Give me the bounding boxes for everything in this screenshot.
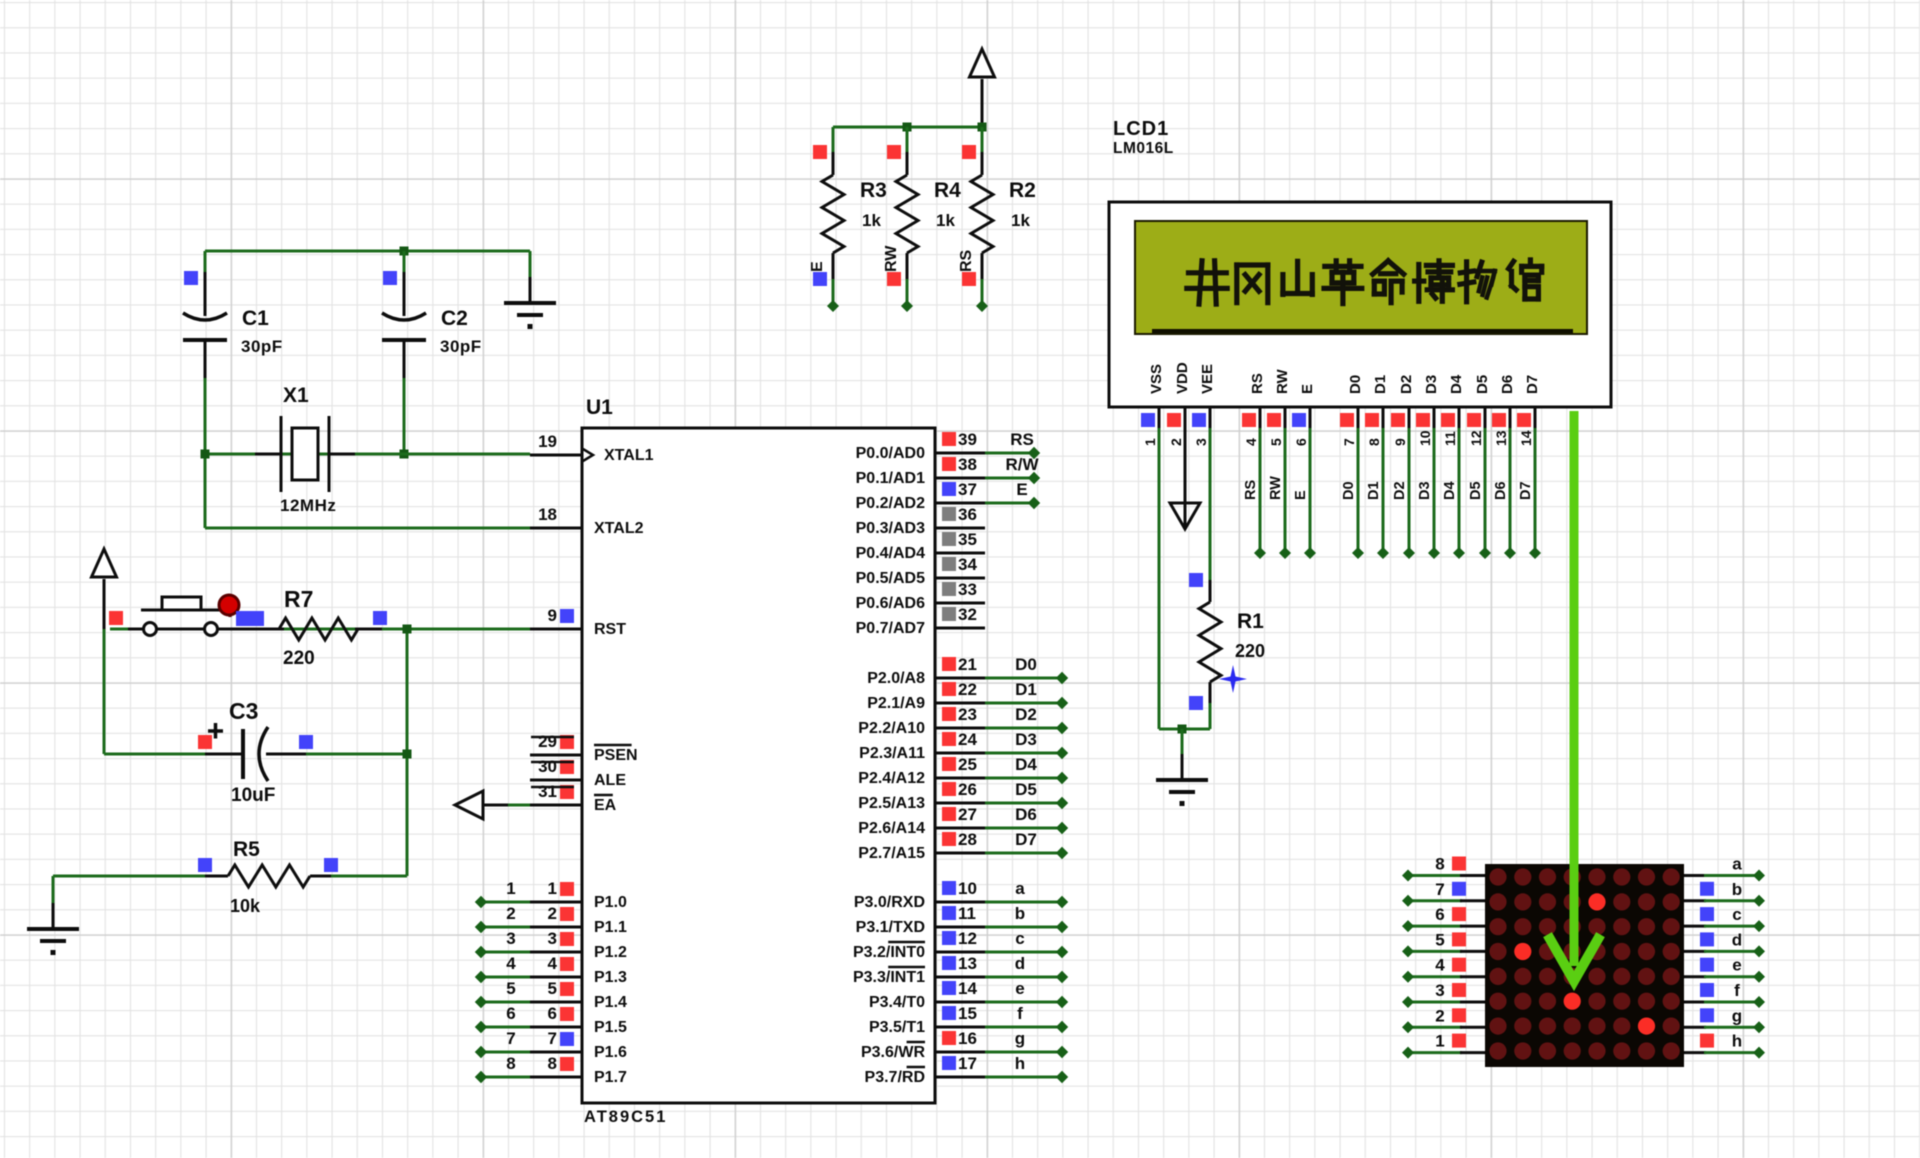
svg-text:6: 6 — [548, 1004, 557, 1023]
wire net D3 lcd — [1433, 428, 1436, 553]
wire net 1 — [481, 901, 530, 904]
svg-text:RW: RW — [1268, 476, 1284, 500]
svg-text:7: 7 — [506, 1029, 515, 1048]
wire net D3 — [985, 752, 1062, 755]
svg-text:14: 14 — [958, 979, 977, 998]
resistor R2 — [981, 127, 984, 152]
pin P3.2 12 — [935, 951, 985, 954]
wire net 6 — [481, 1026, 530, 1029]
svg-text:23: 23 — [958, 705, 977, 724]
wire matrix row 6 — [1408, 925, 1462, 928]
svg-text:3: 3 — [548, 929, 557, 948]
svg-text:24: 24 — [958, 730, 977, 749]
resistor R3 — [832, 127, 835, 152]
node R5 left — [198, 858, 212, 872]
svg-text:10uF: 10uF — [231, 785, 275, 806]
svg-text:P1.6: P1.6 — [594, 1044, 627, 1061]
node R2 top — [962, 145, 976, 159]
svg-text:30pF: 30pF — [241, 337, 283, 356]
svg-text:P0.5/AD5: P0.5/AD5 — [856, 570, 925, 587]
svg-text:C1: C1 — [242, 307, 269, 330]
pin P2.5 26 — [935, 802, 985, 805]
node R4 bottom — [887, 272, 901, 286]
wire R2 bottom net RS — [981, 279, 984, 306]
pin P3.6 16 — [935, 1051, 985, 1054]
pin P1.0 1 — [530, 901, 582, 904]
svg-text:P1.0: P1.0 — [594, 894, 627, 911]
wire net D5 lcd — [1484, 428, 1487, 553]
svg-text:11: 11 — [958, 904, 976, 923]
marker origin — [1219, 665, 1247, 693]
pin P0.5 34 — [935, 577, 985, 580]
svg-text:RS: RS — [1249, 373, 1266, 394]
pin P3.3 13 — [935, 976, 985, 979]
wire net D4 — [985, 777, 1062, 780]
svg-text:RST: RST — [594, 621, 626, 638]
svg-text:4: 4 — [548, 954, 558, 973]
svg-text:13: 13 — [958, 954, 977, 973]
node R2 bottom — [962, 272, 976, 286]
svg-text:8: 8 — [548, 1054, 557, 1073]
svg-text:c: c — [1015, 929, 1024, 948]
svg-text:4: 4 — [1435, 956, 1445, 975]
wire pullup rail — [833, 126, 982, 129]
wire left vertical to C3 — [103, 629, 106, 754]
svg-text:31: 31 — [538, 782, 557, 801]
wire R5 row left — [53, 875, 207, 878]
power terminal VCC reset — [92, 549, 117, 577]
svg-text:18: 18 — [538, 505, 557, 524]
svg-text:30pF: 30pF — [440, 337, 482, 356]
svg-text:D7: D7 — [1524, 375, 1541, 394]
svg-text:P2.6/A14: P2.6/A14 — [858, 820, 925, 837]
svg-text:P2.7/A15: P2.7/A15 — [858, 845, 925, 862]
wire matrix row 7 — [1408, 899, 1462, 902]
junction at left vertical — [201, 450, 210, 459]
svg-text:E: E — [1293, 490, 1309, 500]
wire C3 row right — [306, 753, 407, 756]
svg-text:P3.7/RD: P3.7/RD — [865, 1069, 925, 1086]
svg-text:LM016L: LM016L — [1113, 140, 1174, 157]
pin EA 31 — [530, 804, 582, 807]
svg-text:P1.1: P1.1 — [594, 919, 627, 936]
svg-text:P3.2/INT0: P3.2/INT0 — [853, 944, 925, 961]
svg-text:D5: D5 — [1474, 375, 1491, 394]
wire matrix col a — [1684, 874, 1706, 877]
svg-text:7: 7 — [1341, 438, 1357, 446]
svg-text:e: e — [1732, 956, 1741, 975]
wire matrix row 8 — [1408, 874, 1462, 877]
svg-text:6: 6 — [506, 1004, 515, 1023]
svg-text:D1: D1 — [1366, 481, 1382, 500]
svg-text:9: 9 — [1392, 438, 1408, 446]
svg-text:AT89C51: AT89C51 — [584, 1108, 667, 1126]
junction at XTAL1 net — [400, 450, 409, 459]
svg-text:D6: D6 — [1499, 375, 1516, 394]
pin P0.7 32 — [935, 627, 985, 630]
svg-text:h: h — [1732, 1032, 1742, 1051]
svg-text:1: 1 — [1142, 438, 1158, 446]
svg-text:7: 7 — [1435, 880, 1444, 899]
wire net 2 — [481, 926, 530, 929]
wire to ground — [1181, 729, 1184, 753]
svg-text:EA: EA — [594, 797, 617, 814]
svg-text:P2.1/A9: P2.1/A9 — [867, 695, 925, 712]
svg-text:12: 12 — [1468, 430, 1484, 446]
svg-text:P1.7: P1.7 — [594, 1069, 627, 1086]
svg-text:RW: RW — [1274, 368, 1291, 394]
capacitor C1 — [204, 251, 207, 272]
svg-text:15: 15 — [958, 1004, 977, 1023]
wire matrix row 1 — [1408, 1051, 1462, 1054]
svg-text:D1: D1 — [1015, 680, 1037, 699]
svg-text:D4: D4 — [1442, 481, 1458, 500]
svg-text:1: 1 — [548, 879, 557, 898]
svg-text:g: g — [1015, 1029, 1025, 1048]
svg-text:D6: D6 — [1015, 805, 1037, 824]
svg-text:1k: 1k — [936, 211, 955, 230]
junction rail R2 — [978, 123, 987, 132]
node C1 top — [184, 271, 198, 285]
power terminal EA — [455, 791, 483, 819]
ground R1 — [1181, 751, 1184, 756]
resistor R1 — [1189, 573, 1203, 587]
wire matrix col g — [1684, 1026, 1706, 1029]
svg-text:220: 220 — [283, 648, 315, 669]
svg-text:33: 33 — [958, 580, 977, 599]
wire VSS down — [1158, 428, 1161, 729]
svg-text:3: 3 — [506, 929, 515, 948]
wire net e — [985, 1001, 1062, 1004]
svg-text:c: c — [1732, 905, 1741, 924]
wire net D5 — [985, 802, 1062, 805]
svg-text:5: 5 — [548, 979, 557, 998]
wire C3 row left — [104, 753, 207, 756]
svg-text:D4: D4 — [1448, 374, 1465, 394]
svg-text:h: h — [1015, 1054, 1025, 1073]
svg-text:LCD1: LCD1 — [1113, 118, 1169, 140]
wire net 8 — [481, 1076, 530, 1079]
wire C1 to XTAL1 left vertical — [204, 378, 207, 528]
svg-text:P3.4/T0: P3.4/T0 — [869, 994, 925, 1011]
svg-text:C3: C3 — [229, 698, 258, 724]
wire net E lcd — [1309, 428, 1312, 553]
svg-text:P2.4/A12: P2.4/A12 — [858, 770, 925, 787]
svg-text:VEE: VEE — [1199, 364, 1216, 394]
pin P2.4 25 — [935, 777, 985, 780]
wire matrix col c — [1684, 925, 1706, 928]
svg-text:RW: RW — [883, 245, 900, 272]
wire matrix row 4 — [1408, 975, 1462, 978]
pin P1.1 2 — [530, 926, 582, 929]
ground reset — [52, 876, 55, 905]
pin P0.2 37 — [935, 502, 985, 505]
pin P3.4 14 — [935, 1001, 985, 1004]
svg-text:X1: X1 — [283, 384, 309, 407]
wire net b — [985, 926, 1062, 929]
wire net D1 lcd — [1382, 428, 1385, 553]
node R3 top — [813, 145, 827, 159]
svg-text:P3.3/INT1: P3.3/INT1 — [853, 969, 925, 986]
svg-text:220: 220 — [1235, 641, 1265, 661]
svg-text:ALE: ALE — [594, 772, 626, 789]
svg-text:5: 5 — [1435, 930, 1444, 949]
svg-text:8: 8 — [506, 1054, 515, 1073]
annotation green arrow — [1570, 411, 1579, 966]
wire net D0 — [985, 677, 1062, 680]
wire matrix col e — [1684, 975, 1706, 978]
resistor R5 — [205, 875, 228, 878]
junction C3-right vertical — [403, 750, 412, 759]
wire net D6 lcd — [1509, 428, 1512, 553]
svg-text:R/W: R/W — [1005, 455, 1039, 474]
svg-text:P0.4/AD4: P0.4/AD4 — [856, 545, 925, 562]
wire XTAL1 row — [205, 453, 530, 456]
svg-text:D2: D2 — [1015, 705, 1037, 724]
svg-text:28: 28 — [958, 830, 977, 849]
wire net D2 lcd — [1408, 428, 1411, 553]
pin P2.0 21 — [935, 677, 985, 680]
pin P3.5 15 — [935, 1026, 985, 1029]
junction node at C2 top — [400, 247, 409, 256]
pin P1.6 7 — [530, 1051, 582, 1054]
svg-text:8: 8 — [1435, 855, 1444, 874]
svg-text:6: 6 — [1293, 438, 1309, 446]
pin XTAL2 18 — [530, 527, 582, 530]
svg-text:22: 22 — [958, 680, 977, 699]
node C3 left — [198, 735, 212, 749]
lcd LCD1 body — [1109, 202, 1611, 407]
svg-text:37: 37 — [958, 480, 977, 499]
svg-text:13: 13 — [1493, 430, 1509, 446]
svg-text:E: E — [809, 261, 826, 272]
power terminal VCC pullups — [970, 49, 995, 77]
pin P1.4 5 — [530, 1001, 582, 1004]
crystal X1 — [255, 453, 281, 456]
wire R4 bottom net RW — [906, 279, 909, 306]
svg-text:g: g — [1732, 1006, 1742, 1025]
wire net 5 — [481, 1001, 530, 1004]
svg-text:P3.5/T1: P3.5/T1 — [869, 1019, 925, 1036]
svg-text:RS: RS — [1243, 480, 1259, 500]
node R3 bottom — [813, 272, 827, 286]
wire top rail C1-C2-ground — [205, 250, 530, 253]
svg-text:D0: D0 — [1347, 375, 1364, 394]
svg-text:U1: U1 — [586, 396, 613, 419]
svg-text:36: 36 — [958, 505, 977, 524]
pin number overbars — [531, 736, 574, 739]
junction R1 ground — [1178, 725, 1187, 734]
wire net D1 — [985, 702, 1062, 705]
svg-text:16: 16 — [958, 1029, 977, 1048]
svg-text:P3.1/TXD: P3.1/TXD — [856, 919, 925, 936]
junction R7-RST-C3 — [403, 625, 412, 634]
wire net d — [985, 976, 1062, 979]
wire R5 row right — [331, 875, 407, 878]
wire matrix row 5 — [1408, 950, 1462, 953]
svg-text:P0.2/AD2: P0.2/AD2 — [856, 495, 925, 512]
node R7 right — [373, 611, 387, 625]
wire matrix row 2 — [1408, 1026, 1462, 1029]
pin P3.7 17 — [935, 1076, 985, 1079]
pin P0.3 36 — [935, 527, 985, 530]
wire net g — [985, 1051, 1062, 1054]
svg-text:PSEN: PSEN — [594, 747, 638, 764]
svg-text:2: 2 — [548, 904, 557, 923]
ground terminal VDD — [1184, 407, 1187, 529]
svg-text:3: 3 — [1435, 981, 1444, 1000]
pin PSEN 29 — [530, 754, 582, 757]
wire net RS lcd — [1259, 428, 1262, 553]
pin ALE 30 — [530, 779, 582, 782]
svg-text:P3.6/WR: P3.6/WR — [861, 1044, 925, 1061]
node R4 top — [887, 145, 901, 159]
svg-text:10: 10 — [1417, 430, 1433, 446]
svg-text:D0: D0 — [1015, 655, 1037, 674]
svg-text:P1.3: P1.3 — [594, 969, 627, 986]
svg-text:12: 12 — [958, 929, 977, 948]
svg-text:D7: D7 — [1015, 830, 1037, 849]
svg-text:VDD: VDD — [1174, 362, 1191, 394]
pin P2.2 23 — [935, 727, 985, 730]
ground top right — [529, 251, 532, 279]
svg-text:R4: R4 — [934, 179, 961, 202]
svg-text:19: 19 — [538, 432, 557, 451]
svg-text:25: 25 — [958, 755, 977, 774]
wire matrix col d — [1684, 950, 1706, 953]
svg-text:8: 8 — [1366, 438, 1382, 446]
wire net D7 lcd — [1534, 428, 1537, 553]
pin P3.0 10 — [935, 901, 985, 904]
wire button row — [110, 628, 530, 631]
wire net R/W — [985, 477, 1034, 480]
node C2 top — [383, 271, 397, 285]
svg-text:E: E — [1299, 384, 1316, 394]
svg-text:D3: D3 — [1015, 730, 1037, 749]
pin P0.1 38 — [935, 477, 985, 480]
svg-text:10: 10 — [958, 879, 977, 898]
svg-text:a: a — [1732, 855, 1742, 874]
svg-text:27: 27 — [958, 805, 977, 824]
svg-text:34: 34 — [958, 555, 977, 574]
svg-text:5: 5 — [1268, 438, 1284, 446]
svg-text:R2: R2 — [1009, 179, 1036, 202]
svg-text:1: 1 — [506, 879, 515, 898]
svg-text:P1.4: P1.4 — [594, 994, 627, 1011]
node C3 right — [299, 735, 313, 749]
resistor R4 — [906, 127, 909, 152]
svg-text:35: 35 — [958, 530, 977, 549]
svg-text:b: b — [1015, 904, 1025, 923]
svg-text:D1: D1 — [1372, 375, 1389, 394]
svg-text:a: a — [1015, 879, 1025, 898]
svg-text:D2: D2 — [1398, 375, 1415, 394]
svg-text:14: 14 — [1518, 430, 1534, 446]
pin P2.1 22 — [935, 702, 985, 705]
wire net D2 — [985, 727, 1062, 730]
svg-text:D5: D5 — [1015, 780, 1037, 799]
svg-text:26: 26 — [958, 780, 977, 799]
pin P2.6 27 — [935, 827, 985, 830]
svg-text:VSS: VSS — [1148, 364, 1165, 394]
svg-text:P0.0/AD0: P0.0/AD0 — [856, 445, 925, 462]
node R5 right — [324, 858, 338, 872]
wire net 4 — [481, 976, 530, 979]
pin P1.5 6 — [530, 1026, 582, 1029]
svg-text:e: e — [1015, 979, 1024, 998]
wire matrix col f — [1684, 1001, 1706, 1004]
pin RST 9 — [530, 628, 582, 631]
svg-text:R1: R1 — [1237, 610, 1264, 633]
svg-text:D2: D2 — [1392, 481, 1408, 500]
svg-text:3: 3 — [1193, 438, 1209, 446]
svg-text:D7: D7 — [1518, 481, 1534, 500]
svg-text:7: 7 — [548, 1029, 557, 1048]
node button-R7 — [236, 611, 264, 626]
pin XTAL1 19 — [530, 454, 582, 457]
wire R1 bottom — [1209, 703, 1212, 729]
svg-text:f: f — [1734, 981, 1740, 1000]
svg-text:d: d — [1732, 930, 1742, 949]
wire VEE down to R1 — [1209, 428, 1212, 580]
svg-text:D3: D3 — [1423, 375, 1440, 394]
svg-text:2: 2 — [1435, 1006, 1444, 1025]
svg-text:29: 29 — [538, 732, 557, 751]
wire net D4 lcd — [1458, 428, 1461, 553]
wire net D6 — [985, 827, 1062, 830]
svg-text:P2.2/A10: P2.2/A10 — [858, 720, 925, 737]
svg-text:39: 39 — [958, 430, 977, 449]
svg-text:P1.2: P1.2 — [594, 944, 627, 961]
svg-text:R5: R5 — [233, 838, 260, 861]
wire net c — [985, 951, 1062, 954]
junction rail R4 — [903, 123, 912, 132]
svg-text:P0.7/AD7: P0.7/AD7 — [856, 620, 925, 637]
capacitor C3 polarized — [205, 753, 243, 756]
svg-text:9: 9 — [548, 606, 557, 625]
svg-text:2: 2 — [506, 904, 515, 923]
svg-text:E: E — [1016, 480, 1027, 499]
lcd screen — [1135, 221, 1587, 334]
wire R7 to RST and down — [406, 629, 409, 876]
svg-text:2: 2 — [1168, 438, 1184, 446]
pin P0.4 35 — [935, 552, 985, 555]
wire net a — [985, 901, 1062, 904]
svg-text:C2: C2 — [441, 307, 468, 330]
svg-text:P0.1/AD1: P0.1/AD1 — [856, 470, 925, 487]
svg-text:1k: 1k — [862, 211, 881, 230]
pin P1.3 4 — [530, 976, 582, 979]
svg-text:P2.3/A11: P2.3/A11 — [859, 745, 925, 762]
svg-text:4: 4 — [506, 954, 516, 973]
svg-text:1: 1 — [1435, 1032, 1444, 1051]
svg-text:P3.0/RXD: P3.0/RXD — [854, 894, 925, 911]
dot matrix display body — [1485, 864, 1684, 1067]
wire matrix col b — [1684, 899, 1706, 902]
svg-text:D0: D0 — [1341, 481, 1357, 500]
svg-text:D3: D3 — [1417, 481, 1433, 500]
pin P0.0 39 — [935, 452, 985, 455]
svg-text:P1.5: P1.5 — [594, 1019, 627, 1036]
lcd text display — [1189, 270, 1227, 275]
wire net f — [985, 1026, 1062, 1029]
svg-text:4: 4 — [1243, 438, 1259, 446]
wire net RS — [985, 452, 1034, 455]
wire C2 down to XTAL1 net — [403, 378, 406, 454]
wire matrix col h — [1684, 1051, 1706, 1054]
svg-text:5: 5 — [506, 979, 515, 998]
svg-text:R7: R7 — [284, 586, 313, 612]
